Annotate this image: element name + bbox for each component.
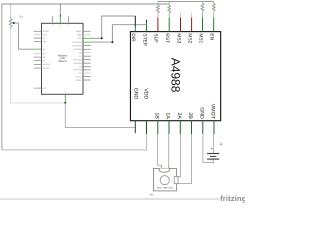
svg-text:J1: J1 [219,142,223,146]
wire VDD rail B top [158,0,214,2]
motor notch [159,168,169,172]
svg-text:VDD: VDD [142,88,148,99]
pin MS2 terminal stub [191,13,193,18]
svg-text:MS1: MS1 [198,33,204,43]
svg-text:GND: GND [133,88,139,100]
svg-text:2A: 2A [176,112,182,119]
motor M1 body [153,168,176,191]
pin MS2 leg (red) [191,18,193,32]
svg-text:D1/TX: D1/TX [76,75,83,78]
svg-text:RST: RST [164,33,170,43]
svg-text:D11 PWM: D11 PWM [72,41,82,44]
wire R1 to arduino pin [14,23,42,49]
A4988 bottom pin legs [135,121,214,134]
svg-text:A5/SCL: A5/SCL [43,67,51,70]
svg-text:1A: 1A [165,112,171,119]
svg-text:D6 PWM: D6 PWM [73,59,82,62]
svg-text:MS2: MS2 [186,33,192,43]
svg-text:3.3V: 3.3V [43,34,48,37]
arduino left pin legs [34,31,42,88]
resistor R4 (MS1 pullup) [201,1,204,17]
svg-text:1B: 1B [153,112,159,119]
footer line [0,198,220,200]
wire STEP net [83,25,147,42]
svg-text:STEP: STEP [141,33,147,46]
arduino right pin legs [83,31,91,80]
pin SLP leg (red) [157,18,159,32]
svg-text:D9 PWM: D9 PWM [73,48,82,51]
battery plus marker [211,148,213,150]
A4988 top pin labels [130,33,214,46]
pin EN leg [213,17,215,31]
svg-text:M1: M1 [150,193,154,196]
svg-text:SLP: SLP [153,33,159,42]
pin MS3 terminal stub [180,13,182,18]
pin RST leg [168,18,170,32]
A4988 U2 body [130,32,220,121]
svg-text:DIR: DIR [130,33,136,42]
motor right tab [174,177,178,184]
resistor R5 (EN pullup) [212,1,215,17]
arduino 5V top pin wire to rail [59,4,61,23]
svg-text:MOT-28BYJ48: MOT-28BYJ48 [157,186,173,189]
svg-text:R1: R1 [20,16,24,19]
arduino left pin labels [43,30,51,90]
pin DIR leg [134,16,136,27]
wire 2B to motor tab [175,134,192,184]
wire arduino GND to A4988 GND [65,103,135,128]
svg-text:D3 PWM: D3 PWM [73,69,82,72]
arduino top pin legs [53,16,69,23]
arduino U1 body [42,23,84,94]
svg-text:2B: 2B [187,112,193,119]
svg-text:D5 PWM: D5 PWM [73,62,82,65]
svg-text:VIN: VIN [43,40,47,43]
pin STEP leg [146,20,148,22]
svg-text:MS3: MS3 [175,33,181,43]
wire DIR net [83,16,135,38]
svg-text:D10 PWM: D10 PWM [72,44,82,47]
wire VMOT to battery plus [212,134,214,153]
resistor R2 (SLP pullup) [156,1,159,17]
node GND junction [64,102,66,104]
svg-text:RESET: RESET [43,30,51,33]
resistor R3 (RST pullup) [168,1,171,17]
motor circle [160,176,169,185]
svg-text:fritzing: fritzing [220,194,245,203]
resistor R1 [9,4,12,30]
svg-text:A4/SDA: A4/SDA [43,63,51,66]
wire 1A to motor [168,134,170,169]
pin MS1 leg [202,17,204,31]
wire GND bottom long [2,134,147,150]
wire 1B to motor [158,134,162,169]
svg-text:GND: GND [198,107,204,119]
svg-text:VMOT: VMOT [210,104,216,120]
svg-text:GND: GND [77,34,82,37]
battery J1 [207,154,219,160]
wire A4988 GND to battery minus [203,134,213,163]
svg-text:(Rev3): (Rev3) [58,60,66,63]
arduino right pin labels [72,30,82,82]
wire 2A to motor tab [177,134,181,177]
svg-text:EN: EN [209,33,215,40]
A4988 bottom pin labels [133,88,216,120]
arduino center label [58,54,68,63]
svg-text:AREF: AREF [76,30,82,33]
arduino top/bottom tiny pin labels [52,24,70,94]
svg-text:D0/RX: D0/RX [76,79,83,82]
wire R1 bottom to GND net (faint) [11,29,66,103]
wire 5V rail A top [2,4,169,150]
junction dot R1 [13,22,15,24]
svg-text:A4988: A4988 [168,58,182,93]
arduino GND bottom pin [64,94,66,103]
pin MS3 leg (red) [180,18,182,32]
